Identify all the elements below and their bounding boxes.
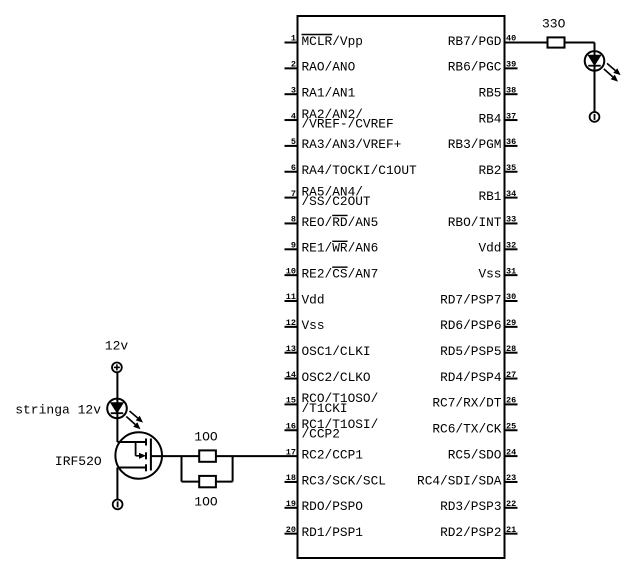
svg-text:29: 29 <box>506 318 516 328</box>
svg-text:20: 20 <box>286 525 296 535</box>
svg-text:RA1/AN1: RA1/AN1 <box>302 86 356 101</box>
svg-text:RD3/PSP3: RD3/PSP3 <box>440 499 501 514</box>
wire pin40 to resistor R1 <box>505 42 548 44</box>
svg-text:RC6/TX/CK: RC6/TX/CK <box>432 422 501 437</box>
pin 36 stub wire <box>505 145 518 147</box>
junction left vertical wire <box>181 456 183 482</box>
svg-text:16: 16 <box>286 421 296 431</box>
svg-text:33O: 33O <box>542 16 566 31</box>
MOSFET Q1 drain channel bar <box>145 439 147 446</box>
pin 21 stub wire <box>505 533 518 535</box>
svg-text:/CCP2: /CCP2 <box>302 427 340 442</box>
svg-text:RD4/PSP4: RD4/PSP4 <box>440 370 502 385</box>
resistor R3 100 body <box>199 476 216 487</box>
svg-text:31: 31 <box>506 266 516 276</box>
LED D1 light arrow upper <box>607 63 621 75</box>
svg-text:26: 26 <box>506 396 516 406</box>
MOSFET Q1 mid channel bar <box>145 452 147 459</box>
pin 13 stub wire <box>285 352 298 354</box>
svg-text:2: 2 <box>291 60 296 70</box>
svg-text:9: 9 <box>291 241 296 251</box>
pin 7 stub wire <box>285 197 298 199</box>
pin 23 stub wire <box>505 481 518 483</box>
svg-text:RD1/PSP1: RD1/PSP1 <box>302 525 364 540</box>
svg-text:25: 25 <box>506 421 516 431</box>
svg-text:Vss: Vss <box>302 318 325 333</box>
wire lower left to resistor R3 <box>182 481 200 483</box>
pin 34 stub wire <box>505 197 518 199</box>
svg-text:8: 8 <box>291 215 296 225</box>
svg-text:RC4/SDI/SDA: RC4/SDI/SDA <box>417 473 502 488</box>
overline on WR of pin 9 label <box>332 240 347 242</box>
resistor R2 100 body <box>199 450 216 461</box>
svg-text:OSC1/CLKI: OSC1/CLKI <box>302 344 371 359</box>
pin 19 stub wire <box>285 507 298 509</box>
svg-text:RD6/PSP6: RD6/PSP6 <box>440 318 501 333</box>
svg-text:7: 7 <box>291 189 296 199</box>
svg-text:RC7/RX/DT: RC7/RX/DT <box>432 396 501 411</box>
pin 25 stub wire <box>505 429 518 431</box>
wire resistor R2 to pin17 RC2/CCP1 <box>216 455 298 457</box>
wire supply to LED D2 to MOSFET drain <box>116 372 118 442</box>
svg-text:6: 6 <box>291 163 296 173</box>
pin 12 stub wire <box>285 326 298 328</box>
svg-text:38: 38 <box>506 85 516 95</box>
svg-text:RB6/PGC: RB6/PGC <box>448 60 502 75</box>
LED D1 symbol <box>585 51 605 71</box>
svg-text:19: 19 <box>286 499 296 509</box>
overline on CS of pin 10 label <box>332 266 347 268</box>
svg-text:18: 18 <box>286 473 296 483</box>
ground terminal for MOSFET source <box>113 500 123 510</box>
MOSFET Q1 gate bar <box>150 439 152 471</box>
overline on MCLR of pin 1 label <box>302 34 333 36</box>
svg-text:14: 14 <box>286 370 296 380</box>
overline on RD of pin 8 label <box>332 214 347 216</box>
svg-text:stringa 12v: stringa 12v <box>15 403 101 418</box>
svg-text:Vdd: Vdd <box>478 241 501 256</box>
pin 14 stub wire <box>285 378 298 380</box>
pin 1 stub wire <box>285 42 298 44</box>
svg-text:35: 35 <box>506 163 516 173</box>
svg-text:RB7/PGD: RB7/PGD <box>448 34 502 49</box>
wire corner down to LED D1 and cathode lead <box>594 43 596 113</box>
svg-text:RD5/PSP5: RD5/PSP5 <box>440 344 501 359</box>
svg-text:RBO/INT: RBO/INT <box>448 215 502 230</box>
svg-text:13: 13 <box>286 344 296 354</box>
pin 39 stub wire <box>505 67 518 69</box>
pin 26 stub wire <box>505 403 518 405</box>
svg-text:10: 10 <box>286 266 296 276</box>
pin 33 stub wire <box>505 222 518 224</box>
pin 27 stub wire <box>505 378 518 380</box>
svg-text:3: 3 <box>291 85 296 95</box>
svg-text:28: 28 <box>506 344 516 354</box>
svg-text:RC3/SCK/SCL: RC3/SCK/SCL <box>302 473 386 488</box>
svg-text:IRF52O: IRF52O <box>55 454 102 469</box>
pin 35 stub wire <box>505 171 518 173</box>
junction right vertical wire <box>232 456 234 482</box>
svg-text:RAO/ANO: RAO/ANO <box>302 60 356 75</box>
svg-text:REO/RD/AN5: REO/RD/AN5 <box>302 215 379 230</box>
svg-text:RA3/AN3/VREF+: RA3/AN3/VREF+ <box>302 137 402 152</box>
pin 4 stub wire <box>285 119 298 121</box>
+12v supply terminal <box>112 363 122 373</box>
svg-text:RB5: RB5 <box>478 86 501 101</box>
MOSFET Q1 bulk connection with arrow <box>136 442 146 459</box>
svg-text:1OO: 1OO <box>194 494 218 509</box>
pin 15 stub wire <box>285 403 298 405</box>
svg-text:36: 36 <box>506 137 516 147</box>
pin 10 stub wire <box>285 274 298 276</box>
svg-text:15: 15 <box>286 396 296 406</box>
svg-text:1: 1 <box>291 34 296 44</box>
svg-text:23: 23 <box>506 473 516 483</box>
pin 5 stub wire <box>285 145 298 147</box>
svg-text:Vss: Vss <box>478 266 501 281</box>
MOSFET Q1 envelope circle <box>115 432 162 479</box>
pin 6 stub wire <box>285 171 298 173</box>
LED D2 symbol <box>107 399 127 419</box>
svg-text:4: 4 <box>291 111 296 121</box>
pin 32 stub wire <box>505 248 518 250</box>
svg-text:/SS/C2OUT: /SS/C2OUT <box>302 194 371 209</box>
svg-text:RD2/PSP2: RD2/PSP2 <box>440 525 501 540</box>
svg-text:39: 39 <box>506 60 516 70</box>
svg-text:RC5/SDO: RC5/SDO <box>448 447 502 462</box>
pin 24 stub wire <box>505 455 518 457</box>
wire resistor R3 to right junction <box>216 481 233 483</box>
pin 11 stub wire <box>285 300 298 302</box>
svg-text:RE1/WR/AN6: RE1/WR/AN6 <box>302 241 379 256</box>
LED D2 light arrow upper <box>130 411 144 423</box>
pin 29 stub wire <box>505 326 518 328</box>
svg-text:RB1: RB1 <box>478 189 501 204</box>
LED D2 light arrow lower <box>126 417 140 430</box>
MOSFET Q1 source channel bar <box>145 464 147 471</box>
svg-text:1OO: 1OO <box>194 430 218 445</box>
pin 37 stub wire <box>505 119 518 121</box>
svg-text:27: 27 <box>506 370 516 380</box>
wire resistor R1 to corner <box>565 42 595 44</box>
svg-text:RA4/TOCKI/C1OUT: RA4/TOCKI/C1OUT <box>302 163 418 178</box>
pin 2 stub wire <box>285 67 298 69</box>
pin 22 stub wire <box>505 507 518 509</box>
svg-text:MCLR/Vpp: MCLR/Vpp <box>302 34 363 49</box>
svg-text:/T1CKI: /T1CKI <box>302 401 348 416</box>
svg-text:11: 11 <box>286 292 296 302</box>
resistor R1 330 body <box>548 37 565 47</box>
pin 18 stub wire <box>285 481 298 483</box>
LED D1 light arrow lower <box>604 69 618 82</box>
svg-text:12: 12 <box>286 318 296 328</box>
wire MOSFET source to ground <box>116 468 118 500</box>
svg-text:33: 33 <box>506 215 516 225</box>
pin 30 stub wire <box>505 300 518 302</box>
svg-text:Vdd: Vdd <box>302 292 325 307</box>
pin 9 stub wire <box>285 248 298 250</box>
svg-text:RDO/PSPO: RDO/PSPO <box>302 499 364 514</box>
pin 16 stub wire <box>285 429 298 431</box>
svg-text:22: 22 <box>506 499 516 509</box>
svg-text:34: 34 <box>506 189 516 199</box>
MOSFET Q1 drain lead <box>117 441 146 443</box>
pin 31 stub wire <box>505 274 518 276</box>
IC U1 PIC16F877 body <box>298 16 505 558</box>
svg-text:RE2/CS/AN7: RE2/CS/AN7 <box>302 266 379 281</box>
svg-text:37: 37 <box>506 111 516 121</box>
svg-text:RC2/CCP1: RC2/CCP1 <box>302 447 364 462</box>
pin 3 stub wire <box>285 93 298 95</box>
svg-text:/VREF-/CVREF: /VREF-/CVREF <box>302 116 394 131</box>
pin 20 stub wire <box>285 533 298 535</box>
svg-text:12v: 12v <box>105 338 129 353</box>
pin 38 stub wire <box>505 93 518 95</box>
svg-text:RB4: RB4 <box>478 111 501 126</box>
svg-text:24: 24 <box>506 447 516 457</box>
svg-text:21: 21 <box>506 525 516 535</box>
pin 8 stub wire <box>285 222 298 224</box>
wire MOSFET gate to resistor network <box>151 455 199 457</box>
MOSFET Q1 source lead <box>117 467 146 469</box>
svg-text:OSC2/CLKO: OSC2/CLKO <box>302 370 371 385</box>
pin 28 stub wire <box>505 352 518 354</box>
ground terminal for LED D1 <box>590 112 600 122</box>
svg-text:30: 30 <box>506 292 516 302</box>
svg-text:RB3/PGM: RB3/PGM <box>448 137 502 152</box>
svg-text:RB2: RB2 <box>478 163 501 178</box>
svg-text:5: 5 <box>291 137 296 147</box>
svg-text:32: 32 <box>506 241 516 251</box>
svg-text:RD7/PSP7: RD7/PSP7 <box>440 292 501 307</box>
